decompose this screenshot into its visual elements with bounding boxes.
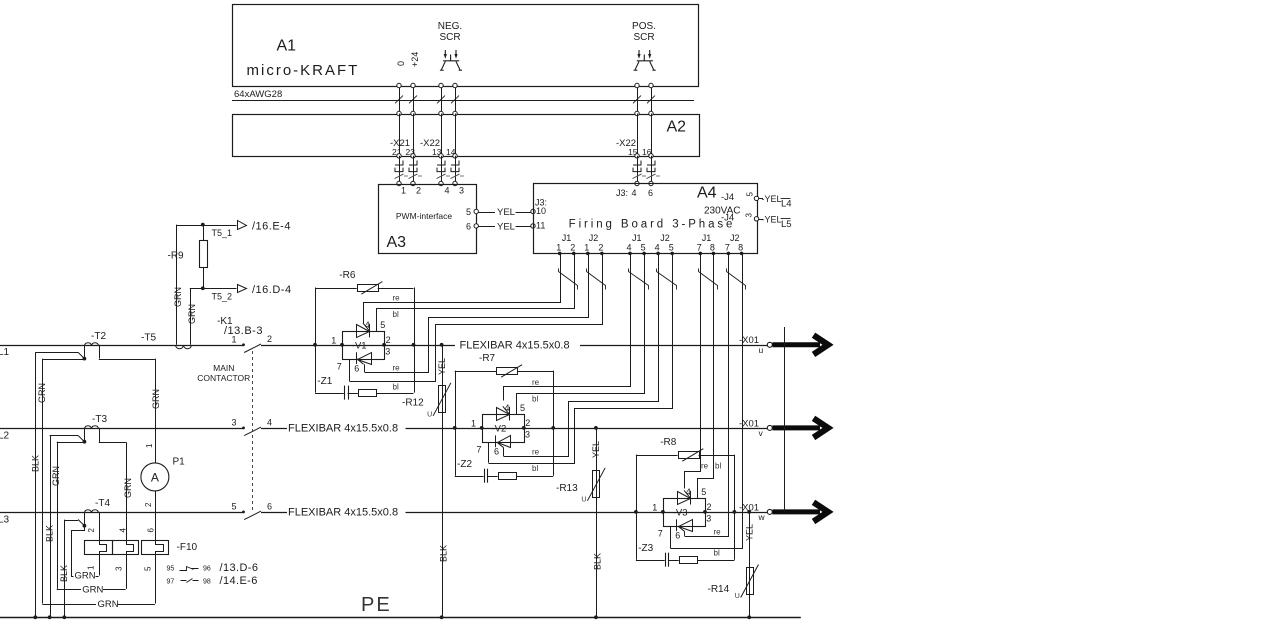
svg-text:-V1: -V1: [352, 341, 367, 352]
svg-text:BLK: BLK: [45, 525, 55, 542]
off-page arrow T5_2: [238, 285, 247, 293]
cable slash x=399: [395, 96, 403, 104]
cable slash x=413: [409, 96, 417, 104]
svg-text:re: re: [532, 448, 540, 457]
svg-text:-R9: -R9: [168, 251, 185, 262]
terminal A1 bottom x=455: [453, 83, 457, 87]
svg-text:-X01: -X01: [739, 335, 759, 346]
wire T4 right leg to F10 pin2: [99, 512, 101, 540]
A4 bottom pin x=713.4: [712, 252, 716, 256]
wire A1 to A2 x=637: [637, 86, 639, 114]
cable slash x=455: [451, 96, 459, 104]
block A1 micro-KRAFT outline: [233, 5, 699, 87]
wire L3 mid: [261, 512, 287, 514]
svg-text:GRN: GRN: [37, 383, 47, 403]
junction R12 on L1: [440, 343, 444, 347]
wire GRN T3 to F10 pin3 right: [103, 589, 126, 591]
svg-text:1: 1: [231, 335, 236, 345]
svg-text:L3: L3: [0, 514, 10, 525]
wire re V3 gate1 to J1-7: [685, 254, 701, 489]
F10 pole 2 box: [113, 541, 139, 555]
svg-text:u: u: [759, 345, 764, 355]
terminal A2 top x=637: [635, 111, 639, 115]
svg-text:1: 1: [401, 186, 406, 196]
wire A2 to board x=637: [637, 156, 639, 184]
svg-text:-V3: -V3: [673, 508, 688, 519]
V1 lower SCR cathode bar: [356, 352, 358, 364]
transformer T3 junction dot: [83, 440, 87, 444]
svg-text:4: 4: [267, 417, 272, 427]
cable slash x=441: [437, 96, 445, 104]
wire R6 loop top-right: [378, 288, 414, 290]
svg-text:-R13: -R13: [556, 483, 578, 494]
svg-text:-Z3: -Z3: [638, 543, 653, 554]
X01 terminal strip line: [784, 327, 786, 512]
transformer T3 diagonal: [78, 436, 84, 442]
svg-text:-R12: -R12: [402, 398, 424, 409]
V2 lower SCR cathode bar: [495, 435, 497, 447]
A4 bottom pin x=573.75: [572, 252, 576, 256]
wire bl V3 cathode1 to J1-8: [698, 254, 714, 499]
wire Z1 to cap: [315, 393, 344, 395]
wire A3-6 to A4-11: [479, 226, 496, 228]
svg-text:YEL: YEL: [591, 441, 601, 458]
twist mark pair 1: [559, 269, 578, 290]
terminal A2 top x=455: [453, 111, 457, 115]
wire Z3 to cap: [636, 560, 665, 562]
wire BLK T4 down to PE: [64, 520, 66, 618]
svg-text:-Z2: -Z2: [457, 459, 472, 470]
wire re V1 gate2 to J2-1: [365, 254, 589, 373]
wire bl V2 cathode2 to J2-5: [489, 254, 673, 464]
svg-text:/13.B-3: /13.B-3: [224, 325, 263, 337]
transformer T3 left leg: [84, 428, 86, 442]
svg-text:MAIN: MAIN: [213, 363, 234, 373]
output arrow v: [773, 418, 829, 437]
V1 upper SCR cathode bar: [369, 324, 371, 338]
svg-text:YEL: YEL: [437, 358, 447, 375]
svg-text:GRN: GRN: [187, 304, 197, 324]
svg-text:FLEXIBAR 4x15.5x0.8: FLEXIBAR 4x15.5x0.8: [460, 340, 570, 352]
R6 varistor slash: [361, 282, 382, 295]
junction R6 right: [412, 343, 416, 347]
svg-text:6: 6: [354, 363, 359, 373]
wire GRN T3 to F10 pin3 left: [57, 589, 81, 591]
wire R6 loop left: [315, 288, 317, 345]
svg-text:64xAWG28: 64xAWG28: [234, 89, 282, 100]
V2 pin2/3 junction: [522, 426, 526, 430]
transformer T3 winding: [85, 426, 99, 429]
transformer T2 junction dot: [83, 357, 87, 361]
svg-text:POS.: POS.: [632, 21, 656, 32]
wire re V2 gate2 to J2-4: [504, 254, 659, 457]
terminal A2 top x=413: [411, 111, 415, 115]
svg-text:4: 4: [445, 186, 450, 196]
A3 pin5 terminal: [474, 209, 478, 213]
svg-text:3: 3: [231, 418, 236, 428]
svg-text:/16.E-4: /16.E-4: [252, 221, 291, 233]
svg-text:re: re: [393, 294, 401, 303]
terminal board top x=441: [439, 181, 443, 185]
wire GRN T2 down: [42, 359, 44, 604]
svg-text:U: U: [427, 411, 432, 418]
F10 heater element x=154.9: [156, 541, 164, 555]
R12 slash: [433, 383, 451, 416]
contact blade K1 5-6: [244, 511, 261, 519]
wire T3 right leg: [99, 428, 101, 442]
wire bl V1 cathode1 to J1-2: [377, 254, 575, 332]
junction R9 bottom: [201, 286, 205, 290]
wire bl V3 cathode2 to J2-8: [671, 254, 743, 549]
cable slash x=637: [633, 96, 641, 104]
svg-text:2: 2: [267, 334, 272, 344]
A4 bottom pin x=700.3: [699, 252, 703, 256]
F10 pole 3 box: [142, 541, 169, 555]
Z2 capacitor plate 1: [484, 469, 486, 483]
svg-text:6: 6: [494, 447, 499, 457]
svg-text:5: 5: [380, 320, 385, 330]
V3 pin2/3 junction: [703, 510, 707, 514]
svg-text:GRN: GRN: [51, 466, 61, 486]
wire V1 pin6 stub: [364, 364, 366, 372]
cable line 64xAWG28: [232, 100, 694, 102]
transformer T2 diagonal: [78, 352, 84, 358]
wire GRN T2 to F10 pin5 left part: [42, 604, 96, 606]
wire inside A2 x=399: [399, 114, 401, 156]
wire R8 loop top-left: [636, 455, 678, 457]
R8 varistor slash: [682, 449, 703, 462]
svg-text:3: 3: [115, 566, 124, 571]
J4-3 terminal: [754, 217, 758, 221]
overline L4: [781, 198, 791, 200]
svg-text:7: 7: [477, 445, 482, 455]
aux contact 97-98 symbol: [181, 579, 199, 583]
wire T3 BLK horizontal: [50, 435, 79, 437]
A4 bottom pin x=559.7: [558, 252, 562, 256]
wire loop right vertical: [414, 288, 416, 393]
A4 bottom pin x=630: [628, 252, 632, 256]
resistor of Z3: [680, 557, 698, 564]
svg-text:GRN: GRN: [75, 571, 96, 582]
terminal A2 bottom x=637: [635, 154, 639, 158]
V2 upper SCR triangle: [497, 408, 510, 421]
wire R8 loop top-right: [699, 455, 735, 457]
junction R7 left: [453, 426, 457, 430]
svg-text:bl: bl: [532, 394, 538, 403]
wire T5_2: [190, 288, 237, 290]
svg-text:-X01: -X01: [739, 418, 759, 429]
wire T4 GRN loop right: [96, 576, 99, 578]
Z3 capacitor plate 2: [668, 553, 670, 567]
A4 bottom pin x=644.1: [642, 252, 646, 256]
wire T3 GRN horizontal: [57, 442, 85, 444]
V1 upper SCR triangle: [357, 325, 370, 338]
svg-text:J1: J1: [562, 233, 572, 243]
svg-text:1: 1: [556, 243, 561, 253]
wire R7 loop top-left: [455, 371, 497, 373]
svg-text:-F10: -F10: [177, 542, 198, 553]
svg-text:10: 10: [536, 206, 546, 216]
R7 varistor slash: [501, 365, 522, 378]
wire R8 loop left: [636, 455, 638, 512]
svg-text:6: 6: [267, 501, 272, 511]
A4 pin10 terminal: [531, 209, 535, 213]
terminal X01 v: [767, 425, 772, 430]
cable slash x=651: [647, 96, 655, 104]
terminal A1 bottom x=651: [649, 83, 653, 87]
wire re V2 gate1 to J1-4: [504, 254, 631, 401]
V3 lower SCR cathode bar: [676, 519, 678, 531]
svg-text:bl: bl: [393, 382, 399, 391]
contact pivot K1 1-2: [242, 343, 245, 346]
svg-text:2: 2: [525, 418, 530, 428]
wire GRN T5 right up: [190, 288, 192, 345]
junction R13 on PE: [594, 615, 598, 619]
svg-text:GRN: GRN: [98, 599, 119, 610]
svg-text:-J4: -J4: [721, 192, 734, 203]
wire inside A2 x=441: [441, 114, 443, 156]
junction BLK T2 on PE: [33, 615, 37, 619]
svg-text:micro-KRAFT: micro-KRAFT: [247, 62, 360, 79]
wire P1 to F10 pin 6: [155, 491, 157, 540]
wire R13 branch to PE: [596, 428, 598, 617]
terminal A2 top x=651: [649, 111, 653, 115]
output arrow w: [773, 502, 829, 521]
connector symbol x=413: [409, 161, 423, 179]
svg-text:J3:: J3:: [616, 188, 628, 198]
wire loop right vertical: [734, 455, 736, 560]
svg-text:J1: J1: [702, 233, 712, 243]
svg-text:BLK: BLK: [438, 545, 448, 562]
connector symbol x=441: [437, 161, 451, 179]
wire up to F10 pin 1: [99, 554, 101, 576]
contact blade K1 1-2: [244, 344, 261, 353]
wire cap to resistor: [487, 476, 497, 478]
wire R9 bottom lead: [203, 268, 205, 289]
svg-text:A4: A4: [697, 185, 717, 202]
svg-text:P1: P1: [173, 457, 186, 468]
terminal board top x=455: [453, 181, 457, 185]
svg-text:2: 2: [87, 528, 96, 533]
svg-text:-R14: -R14: [708, 584, 730, 595]
twist mark pair 4: [657, 269, 677, 290]
block A3 PWM-interface outline: [379, 185, 477, 254]
transformer T4 junction dot: [83, 524, 87, 528]
transformer T4 winding: [85, 510, 99, 513]
svg-text:bl: bl: [715, 461, 721, 470]
wire Z3 loop left: [636, 512, 638, 560]
V2 upper SCR cathode bar: [509, 407, 511, 421]
block A4 Firing Board outline: [534, 184, 758, 254]
wire Z1 loop left: [315, 345, 317, 393]
svg-text:2: 2: [144, 502, 153, 507]
junction R7 right: [551, 426, 555, 430]
wire loop right vertical: [553, 371, 555, 476]
svg-text:5: 5: [701, 487, 706, 497]
Z3 capacitor plate 1: [665, 553, 667, 567]
svg-text:4: 4: [631, 188, 636, 198]
junction R13 on L2: [594, 426, 598, 430]
overline L5: [781, 218, 791, 220]
wire R12 branch to PE: [442, 345, 444, 618]
wire A3-5 to A4-10: [479, 212, 496, 214]
svg-text:2: 2: [416, 186, 421, 196]
wire T4 GRN loop left: [72, 527, 85, 577]
transformer T4 diagonal: [78, 520, 84, 526]
V3 pin1 junction: [661, 510, 665, 514]
A4 pin11 terminal: [531, 224, 535, 228]
wire Z2 loop right: [516, 476, 553, 478]
wire PE bus: [0, 617, 801, 619]
svg-text:L5: L5: [781, 219, 792, 230]
svg-text:Firing Board 3-Phase: Firing Board 3-Phase: [569, 219, 736, 231]
svg-text:re: re: [701, 461, 709, 470]
wire cap to resistor: [348, 393, 358, 395]
wire inside A2 x=455: [455, 114, 457, 156]
wire bl V2 cathode1 to J1-5: [517, 254, 645, 415]
wire GRN T5 left up: [176, 225, 178, 345]
svg-text:2: 2: [598, 243, 603, 253]
wire L1 right: [580, 345, 767, 347]
V3 upper SCR gate lead: [684, 490, 690, 498]
svg-text:6: 6: [675, 531, 680, 541]
svg-text:U: U: [581, 496, 586, 503]
svg-text:BLK: BLK: [59, 565, 69, 582]
terminal board top x=651: [649, 181, 653, 185]
svg-text:4: 4: [655, 243, 660, 253]
V3 upper SCR triangle: [678, 492, 691, 505]
svg-text:5: 5: [520, 403, 525, 413]
junction BLK T4 on PE: [62, 615, 66, 619]
wire T3 right horizontal: [99, 442, 126, 444]
wire up to F10 pin 3: [126, 554, 128, 589]
wire P1 top feed: [155, 359, 157, 463]
F10 heater element x=98.7: [100, 541, 107, 555]
wire down to F10 pin 4: [126, 442, 128, 540]
transformer T4 left leg: [84, 512, 86, 526]
wire Z2 loop left: [455, 428, 457, 476]
contact blade K1 3-4: [244, 427, 261, 436]
terminal A2 bottom x=399: [397, 154, 401, 158]
svg-text:-R8: -R8: [660, 437, 677, 448]
wire R14 branch to PE: [749, 512, 751, 617]
svg-text:A3: A3: [387, 234, 407, 251]
output arrow u: [773, 335, 829, 354]
V1 upper SCR gate lead: [363, 323, 369, 331]
V3 lower SCR triangle: [679, 520, 693, 532]
svg-text:NEG.: NEG.: [438, 21, 462, 32]
wire L2 right: [406, 428, 768, 430]
svg-text:FLEXIBAR 4x15.5x0.8: FLEXIBAR 4x15.5x0.8: [288, 507, 398, 519]
wire re V3 gate2 to J2-7: [685, 254, 729, 537]
svg-text:A2: A2: [667, 119, 687, 136]
contact pivot K1 5-6: [242, 511, 245, 514]
svg-text:-Z1: -Z1: [317, 376, 332, 387]
wire V3 pin7 stub: [670, 526, 672, 548]
wire V3 pin6 stub: [684, 531, 686, 536]
transformer T5 winding: [176, 346, 192, 349]
terminal A2 bottom x=413: [411, 154, 415, 158]
svg-text:CONTACTOR: CONTACTOR: [197, 373, 250, 383]
svg-text:3: 3: [525, 430, 530, 440]
svg-text:J2: J2: [589, 233, 599, 243]
svg-text:6: 6: [648, 188, 653, 198]
terminal A1 bottom x=637: [635, 83, 639, 87]
terminal A2 bottom x=651: [649, 154, 653, 158]
Z2 capacitor plate 2: [487, 469, 489, 483]
wire re V1 gate1 to J1-1: [364, 254, 561, 324]
wire GRN T3 down: [57, 442, 59, 589]
svg-text:re: re: [393, 364, 401, 373]
resistor of Z2: [499, 473, 517, 480]
F10 pole 1 box: [85, 541, 113, 555]
A4 bottom pin x=587.8: [586, 252, 590, 256]
connector symbol x=637: [633, 161, 647, 179]
junction R12 on PE: [440, 615, 444, 619]
svg-text:BLK: BLK: [31, 455, 41, 472]
svg-text:L1: L1: [0, 347, 10, 358]
J4-5 terminal: [754, 196, 758, 200]
svg-text:-R6: -R6: [339, 270, 356, 281]
wire A1 to A2 x=413: [413, 86, 415, 114]
terminal board top x=413: [411, 181, 415, 185]
resistor R9: [200, 241, 208, 268]
wire L1 left: [0, 345, 244, 347]
junction R8 left: [634, 510, 638, 514]
wire BLK T3 down to PE: [50, 435, 52, 617]
wire A1 to A2 x=441: [441, 86, 443, 114]
svg-text:SCR: SCR: [439, 32, 460, 43]
junction R14 on L3: [747, 510, 751, 514]
svg-text:2: 2: [570, 243, 575, 253]
resistor R8: [679, 452, 700, 459]
wire L1 mid: [261, 345, 455, 347]
wire A2 to board x=399: [399, 156, 401, 184]
svg-text:5: 5: [144, 566, 153, 571]
wire Z3 loop right: [697, 560, 734, 562]
svg-text:bl: bl: [714, 549, 720, 558]
svg-text:6: 6: [147, 528, 156, 533]
junction R8 right: [733, 510, 737, 514]
svg-text:4: 4: [626, 243, 631, 253]
svg-text:J1: J1: [632, 233, 642, 243]
wire inside A2 x=651: [651, 114, 653, 156]
svg-text:5: 5: [669, 243, 674, 253]
svg-text:7: 7: [725, 243, 730, 253]
wire T2 GRN horizontal: [42, 359, 84, 361]
wire A2 to board x=651: [651, 156, 653, 184]
resistor of Z1: [359, 390, 377, 397]
wire L2 mid: [261, 428, 287, 430]
Z1 capacitor plate 2: [348, 386, 350, 400]
junction R9 top: [201, 223, 205, 227]
V3 lower SCR gate lead: [678, 526, 685, 531]
svg-text:/14.E-6: /14.E-6: [220, 575, 258, 587]
svg-text:J2: J2: [730, 233, 740, 243]
block A2 outline: [233, 115, 700, 157]
wire T2 right leg: [99, 345, 101, 359]
svg-text:5: 5: [641, 243, 646, 253]
svg-text:-T2: -T2: [91, 331, 106, 342]
svg-text:YEL: YEL: [497, 207, 515, 218]
svg-text:2: 2: [707, 502, 712, 512]
wire inside A2 x=413: [413, 114, 415, 156]
svg-text:PE: PE: [361, 594, 392, 616]
wire GRN T2 to F10 pin5 right part: [118, 604, 155, 606]
wire T2 BLK horizontal: [35, 352, 78, 354]
POS SCR icon: [634, 50, 656, 70]
resistor R7: [497, 368, 518, 375]
